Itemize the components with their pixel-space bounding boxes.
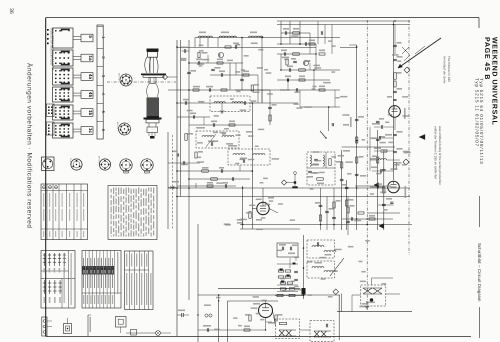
electrolytic dark blob [302,288,306,295]
wire [239,165,241,171]
detector bus [218,288,300,290]
wire [199,38,201,48]
heater bus [240,224,412,226]
wire y330 bottom [228,329,266,331]
contact dots S3 [55,70,57,72]
label cluster right [343,124,349,126]
svg-text:1b: 1b [88,110,93,116]
wire [266,321,273,323]
circle node [294,172,297,175]
schematic rail x346 [346,180,348,230]
bus y47 [177,47,316,49]
rail x327 [326,197,328,231]
resistor R215 [207,185,213,187]
dark capacitor [292,186,297,188]
capacitor C256 [206,328,208,332]
coil assembly mounting flange [141,74,166,76]
note text block frame [108,186,157,240]
capacitor C214 [220,73,222,77]
resistor R227 [377,157,379,163]
capacitor C228 [382,168,386,170]
contact staple S5 [62,107,70,109]
resistor R223 [329,159,331,166]
wire [273,311,276,327]
wire y213 [367,212,400,214]
junctions [280,43,282,45]
AF bus [198,294,340,296]
svg-text:was omitted during of the seri: was omitted during of the series product… [438,126,442,185]
wire [334,90,336,107]
aerial terminal strip [42,317,47,336]
label [279,244,286,246]
diode D201 [170,186,174,189]
wire [195,183,197,188]
plug box 1a [81,54,93,62]
strip segment tick 2 [97,48,103,50]
junction blob [294,181,296,183]
connector block S6 [53,123,74,138]
rail x320 [320,188,322,230]
wire [313,70,315,90]
DIN socket Bu4 [120,159,132,171]
svg-text:PAGE 45 B: PAGE 45 B [483,37,490,80]
speaker transformer dashed box A [276,319,300,339]
wire [242,218,244,225]
resistor R220 [293,32,300,34]
resistor R241 [319,53,325,55]
DIN socket Bu5 [141,159,153,171]
wire y179 [189,178,250,180]
transformer T-B windings [314,331,320,337]
capacitor C208 [242,159,244,163]
dial lamp diamond [404,67,410,73]
mains connector socket [42,157,55,171]
transistor T201 [218,52,223,57]
wire [126,332,156,334]
capacitor C262 [379,169,381,173]
dash rail x172 [172,135,174,230]
plug box 1b [81,109,93,117]
FM module dashed box [307,152,335,185]
diode node diamond [282,180,287,185]
capacitor C247 [345,186,349,188]
junction [333,224,335,226]
coil L260 [378,159,386,160]
capacitor C252 [382,203,386,205]
capacitor C222 [288,68,290,72]
connector block S5 [53,105,74,120]
junction [265,329,266,330]
coil L242 [312,267,324,269]
antenna input diamond [162,74,167,79]
schematic rail x168 [167,132,169,229]
plug box 4a [81,73,93,81]
antenna coil L201 [198,36,212,37]
grid stopper label [253,303,260,305]
socket Bu2 [71,159,82,170]
bus y186 [177,185,236,187]
resistor R224 [317,178,324,180]
svg-text:1a: 1a [88,55,93,61]
RF stage wire [194,38,196,48]
wire y54 [277,53,316,55]
contact staple S3 [62,70,70,72]
resistor R242 [286,59,288,65]
AVC bus upper [168,187,410,189]
tube socket V2 top view [119,123,131,135]
IF dashed box Fi203 [228,149,270,165]
coil L220 [310,155,311,166]
bus y90 [168,89,290,91]
resistor R248 [383,187,385,193]
plug wire pair S2 [73,56,81,58]
resistor R213 [229,124,235,126]
resistor R204 [185,134,187,141]
open diamond output [333,289,339,295]
socket Bu3 [99,159,110,170]
wire [280,54,282,70]
plug wire pair S6 [73,128,81,130]
oscillator coil assembly physical view [147,49,159,52]
wire [261,90,263,103]
vertical label 4BS [405,186,407,198]
wire [261,38,263,104]
wire [257,75,259,103]
capacitor C226 [355,118,359,120]
capacitor C267 [332,216,336,218]
capacitor C221 [283,52,285,55]
wire [287,80,289,90]
capacitor C255 [294,278,298,280]
capacitor C253 [350,217,352,221]
capacitor C215 [240,78,244,80]
schematic rail x377 [377,130,379,230]
wire y163 [168,162,200,164]
capacitor C213 [197,61,199,65]
svg-text:Typ 5215 11 01/02/05/07: Typ 5215 11 01/02/05/07 [475,78,480,147]
strip segment tick 4 [97,85,103,87]
diode D202 filled [374,183,379,188]
capacitor C229 [390,201,393,203]
capacitor C211 [231,177,233,181]
junction dots cluster [303,247,305,249]
coil L208 [233,154,245,156]
coil L221 [323,155,324,166]
label row IF [196,127,205,129]
chassis dash-dot rail x367 [366,20,368,310]
resistor R211 [251,85,253,91]
wire [394,25,396,55]
plug wire pair S1 [73,36,81,38]
wire y186 [355,185,388,187]
wire y107 [300,106,340,108]
wire y219 [342,218,393,220]
label [366,302,375,304]
capacitor C230 [393,58,397,60]
junction [197,314,198,315]
resistor R260 [381,150,387,152]
coil L206 [202,136,214,138]
wire [235,63,237,75]
mains bracket [87,315,89,336]
speaker terminal dot [370,298,373,301]
parts table text [126,254,127,267]
wire [315,44,317,70]
coil L202 [219,36,236,37]
resistor R203 [221,89,227,91]
IF transformer can ribbed body [147,98,160,118]
IF can base flange [144,118,162,120]
resistor R252 [280,288,286,290]
sidebar rule upper [479,196,481,227]
resistor R214 [195,152,197,158]
coupling capacitor C250 [181,313,183,317]
wire [277,284,298,286]
tube V5 output [388,181,400,193]
capacitor C224 [314,158,318,160]
tube V3 electrodes [260,205,266,207]
capacitor C268 [346,220,350,222]
svg-text:KEINE VERBINDUNG GEDRUCKTER PL: KEINE VERBINDUNG GEDRUCKTER PLATTE [52,28,55,71]
capacitor C245 [286,78,288,82]
capacitor C241 [316,242,318,246]
outer frame bottom rule [46,336,471,338]
resistor R254 [244,329,250,331]
legend bullets [47,29,49,31]
bus y147 right [342,146,395,148]
schematic rail x339 output [338,295,340,340]
resistor R245 [341,162,343,168]
coil L205 [232,102,243,103]
resistor R222 [299,69,306,71]
parts table frame [125,251,154,310]
resistor R243 [299,79,305,81]
connector block S1 [53,28,74,48]
ground symbol [365,306,369,308]
wire [309,63,311,70]
coil L240 [312,246,324,248]
capacitor C218 [212,123,214,127]
resistor R205 [202,170,209,172]
wire [269,90,271,125]
capacitor C265 [319,204,323,206]
capacitor C217 [192,115,194,118]
wire [252,208,256,210]
dark blob cap [293,263,296,265]
svg-text:5: 5 [88,35,93,38]
capacitor C219 [182,161,184,165]
capacitor C212 [234,45,236,49]
tube V3 [257,202,269,214]
wire [309,33,311,54]
svg-text:The trimmer C 295: The trimmer C 295 [447,56,451,82]
strip segment tick 1 [97,26,103,28]
schematic rail x393 anode rail [393,21,395,180]
coil L204 [214,102,225,103]
resistor R250 [249,315,251,321]
resistor R244 [319,89,325,91]
svg-text:MS 570: MS 570 [118,73,121,81]
contact staple S4 [62,89,70,91]
bus y44 [277,43,316,45]
speaker wire [386,293,400,295]
wire x290 drop [289,258,291,268]
capacitor C251 [376,120,380,122]
plug box 1c [81,127,93,135]
capacitor C246 [295,88,297,92]
resistor R240 [309,43,315,45]
capacitor C202 [211,68,215,70]
coil L243 [324,271,336,273]
wire [369,127,371,171]
diamond node Bu [403,159,409,165]
wire y47 right stub [340,47,357,49]
output bus [337,311,412,313]
svg-text:1c: 1c [88,128,93,134]
resistor R206 [211,178,218,180]
rail x348 [347,197,349,236]
contact dots S4 [55,89,57,91]
svg-text:36: 36 [8,8,14,14]
svg-text:Im Verlauf der Serie: Im Verlauf der Serie [443,56,447,84]
resistor R202 [193,89,199,91]
capacitor C260 [380,125,382,129]
crossover dashed box upper [307,240,335,258]
capacitor C204 [184,101,186,105]
chassis dash-dot rail x409 [408,20,410,255]
junction [299,43,301,45]
resistor R264 [347,207,349,213]
coil assembly stem [149,77,156,83]
strip segment tick 3 [97,66,103,68]
wire [160,332,171,334]
svg-text:Änderungen vorbehalten · Modif: Änderungen vorbehalten · Modifications r… [26,63,34,229]
top right bus [277,20,410,22]
tube V4 converter [389,106,401,118]
bus y24 [277,24,410,26]
label [203,325,211,327]
fuse holder Si [64,324,72,334]
crossover dashed box lower [307,261,335,278]
transformer primary feed [371,278,373,285]
thermistor box [131,330,137,336]
alignment table component row [0,0,87,1]
svg-text:WEEKEND UNIVERSAL: WEEKEND UNIVERSAL [491,37,498,125]
aux contact box left of S5 [47,104,55,117]
trimmer arrow [206,134,216,147]
wire y171 [177,170,252,172]
resistor R262 [319,215,321,221]
capacitor C264 [393,98,396,100]
bottom resistor row [277,294,283,296]
heater bus return [240,228,300,230]
capacitor C206 [187,71,191,73]
schematic rail x341 [341,150,343,230]
capacitor C216 [268,106,272,108]
aux contact box left of S6 [47,122,55,135]
contact staple S2 [62,52,70,54]
pilot lamp circle [156,331,161,336]
resistor R226 [356,137,358,143]
capacitor C231 [393,90,397,92]
wire [366,301,368,307]
wire [217,38,219,48]
vertical label NF [350,117,352,127]
resistor R201 [198,52,200,58]
tube table symbols bottom row [44,280,46,294]
svg-text:entfiel der Trimmer C 295 im U: entfiel der Trimmer C 295 im UKW-Teil [434,126,438,179]
capacitor C207 [210,142,212,146]
plug wire pair S4 [73,92,81,94]
resistor R230 [394,73,396,80]
resistor R246 [356,157,358,163]
bus y33 [281,32,310,34]
coil L241 [324,251,336,253]
capacitor C261 [378,136,380,139]
strip segment tick 6 [97,121,103,123]
capacitor C249 [355,173,359,175]
svg-text:MS 570: MS 570 [116,122,119,130]
vertical label MF55 [404,108,406,119]
rail x328 mid [328,107,330,131]
bus y117 [177,116,210,118]
schematic rail x252 [251,103,253,229]
tube table symbols top row [44,253,46,266]
wires cluster [277,263,298,265]
capacitor C203 [208,88,210,92]
wire [352,294,361,296]
speaker transformer dashed box B [310,321,334,342]
schematic left bus rail [176,40,178,336]
schematic rail x356 [356,45,358,230]
sidebar rule lower [479,307,481,338]
wire [168,76,177,78]
wire drop [280,21,282,44]
wire [241,38,243,91]
plug wire pair S5 [73,110,81,112]
coil column bottom lugs [147,127,158,133]
capacitor C269 inside box B [325,324,327,328]
plug wire pair S3 [73,74,81,76]
contact staple S6 [62,125,70,127]
svg-text:4a: 4a [88,74,93,80]
wire [269,209,278,214]
junction [252,170,254,172]
resistor R253 [289,288,295,290]
alignment table bottom labels [83,295,84,304]
scattered value labels [236,44,241,46]
diode D203 filled [379,224,384,229]
contact dots S6 [55,125,57,127]
capacitor C205 [243,101,245,105]
resistor R212 [269,115,271,121]
capacitor C227 [376,138,380,140]
contact dots S5 [55,107,57,109]
resistor R255 inside box A [280,322,287,324]
resistor R247 [358,212,364,214]
capacitor C233 [393,150,397,152]
IF bus y103 [177,102,298,104]
svg-text:4b: 4b [88,92,93,98]
cap pair symbols [205,314,208,317]
grid label [268,197,274,199]
service arrow marker [419,134,425,139]
contact dots S1 [55,30,57,32]
switch arm diagonal [330,258,344,276]
bus y90 extension [235,89,270,91]
wire drop [289,21,291,44]
capacitor C220 [284,31,286,35]
